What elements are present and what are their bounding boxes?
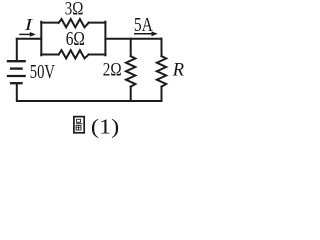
svg-text:3Ω: 3Ω xyxy=(65,0,84,19)
wire: bottom branch left lead xyxy=(41,54,58,56)
wire: 2-ohm top lead xyxy=(130,39,132,57)
wire: 2-ohm bottom lead xyxy=(130,87,132,101)
wire: top horizontal to R branch xyxy=(105,38,161,40)
battery plate long 1 xyxy=(7,60,26,62)
node: right bus bar of parallel pair xyxy=(104,22,106,56)
svg-text:2Ω: 2Ω xyxy=(103,59,122,80)
svg-text:R: R xyxy=(172,59,185,80)
svg-text:6Ω: 6Ω xyxy=(66,29,85,50)
svg-text:50V: 50V xyxy=(30,61,56,83)
battery B1 50V plates xyxy=(7,61,26,83)
current arrow 5A xyxy=(134,31,158,36)
svg-text:I: I xyxy=(23,15,34,34)
resistor R_2ohm zigzag xyxy=(126,56,135,86)
resistor R zigzag xyxy=(157,56,166,86)
wire: battery positive lead xyxy=(16,39,18,60)
battery plate short 1 xyxy=(10,67,23,69)
current arrow I xyxy=(19,32,36,37)
svg-text:5A: 5A xyxy=(134,14,153,36)
wire: bottom branch right lead xyxy=(89,54,106,56)
battery plate short 2 xyxy=(10,82,23,84)
wire: top branch right lead xyxy=(89,22,106,24)
wire: left top horizontal from battery to parallel pair xyxy=(17,38,42,40)
wire: top branch left lead xyxy=(41,22,58,24)
battery plate long 2 xyxy=(7,75,26,77)
svg-text:(1): (1) xyxy=(91,114,119,138)
caption glyph Tu (figure) drawn xyxy=(74,117,84,133)
wire: bottom loop from battery negative to R bottom xyxy=(17,84,162,101)
resistor R_6ohm zigzag xyxy=(59,50,89,58)
wire: R top lead xyxy=(161,39,163,57)
resistor R_3ohm zigzag xyxy=(59,19,89,27)
node: left bus bar of parallel pair xyxy=(40,22,42,56)
